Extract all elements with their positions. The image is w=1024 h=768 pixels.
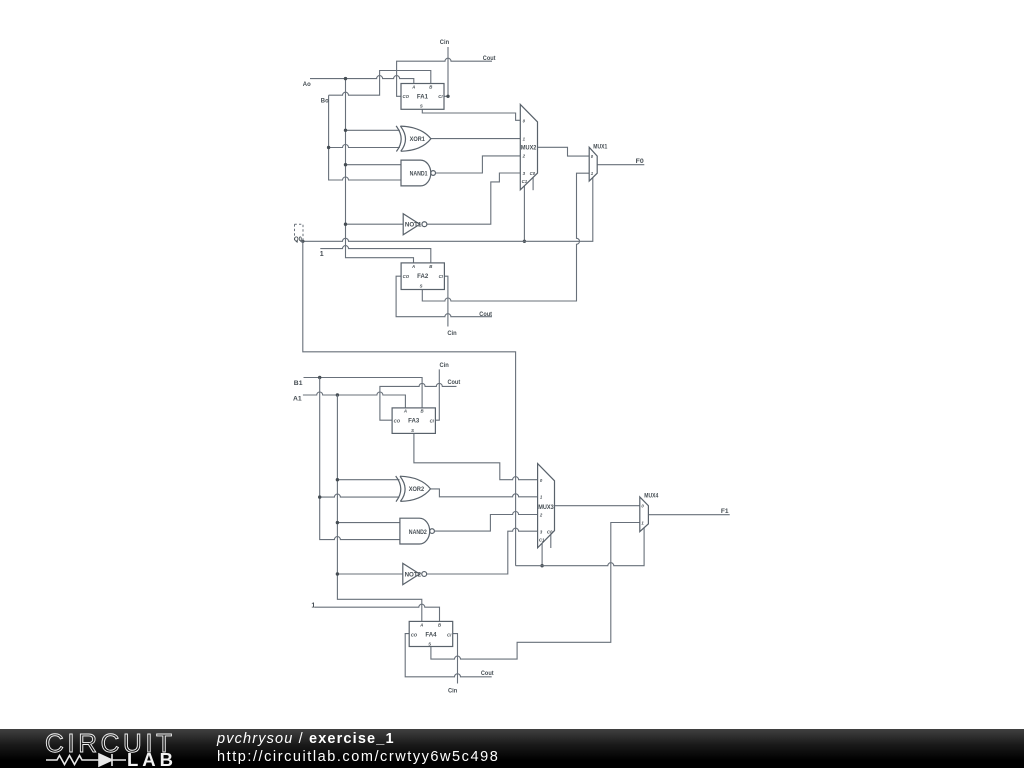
- svg-text:A: A: [403, 409, 407, 414]
- pin labels FA3: [394, 409, 435, 433]
- junction XOR1 upper input: [344, 129, 347, 132]
- wire A1 to FA3.A: [303, 392, 406, 408]
- junction Q0 flag: [301, 240, 304, 243]
- wire Cin to FA3.CI: [435, 369, 439, 420]
- svg-text:0: 0: [540, 478, 543, 483]
- wire XOR1 lower input: [329, 145, 400, 148]
- svg-text:2: 2: [539, 513, 543, 518]
- wire FA4.S to MUX4 pin 1: [431, 523, 640, 660]
- wire MUX3 output to MUX4 pin 0: [555, 505, 640, 507]
- wire FA3.S to MUX3 pin 0: [414, 433, 538, 479]
- junction MUX3.C1 on select wire: [540, 564, 543, 567]
- junction XOR1 lower input: [327, 146, 330, 149]
- svg-text:FA2: FA2: [417, 273, 429, 280]
- wire NOT1 output to MUX2 pin 3: [427, 173, 520, 224]
- svg-text:B: B: [421, 409, 424, 414]
- svg-text:NOT2: NOT2: [405, 571, 422, 578]
- svg-text:Cout: Cout: [481, 670, 494, 677]
- full adder FA4: [409, 621, 453, 646]
- svg-text:3: 3: [540, 529, 543, 534]
- junction FA1.CI: [446, 95, 449, 98]
- svg-text:B: B: [429, 264, 432, 269]
- svg-text:A1: A1: [293, 396, 302, 403]
- svg-text:F1: F1: [721, 508, 729, 515]
- svg-text:Cout: Cout: [448, 379, 461, 386]
- wire FA2.CO to Cout: [396, 276, 492, 317]
- wire MUX3 C0 stub: [550, 534, 552, 548]
- wire FA4.CO to Cout: [405, 634, 492, 677]
- mux MUX4: [640, 497, 649, 532]
- wire Q0 route down to lower section select: [303, 241, 516, 565]
- svg-text:2: 2: [522, 154, 526, 159]
- junction NOT1 input: [344, 223, 347, 226]
- svg-text:Cin: Cin: [447, 330, 456, 337]
- svg-text:0: 0: [641, 504, 644, 509]
- wire XOR1 output to MUX2 pin 1: [431, 138, 520, 140]
- svg-text:Cin: Cin: [448, 687, 457, 694]
- svg-text:MUX3: MUX3: [538, 504, 554, 511]
- wire XOR2 output to MUX3 pin 1: [431, 489, 538, 497]
- logo diode symbol: [96, 754, 126, 766]
- svg-text:Ao: Ao: [303, 81, 311, 88]
- svg-text:FA4: FA4: [425, 631, 437, 638]
- svg-text:S: S: [420, 284, 423, 289]
- pin labels FA2: [403, 264, 444, 289]
- mux MUX3: [538, 464, 555, 548]
- wire select net to MUX4 select: [516, 528, 645, 566]
- junction NAND2 upper input: [336, 521, 339, 524]
- svg-text:1: 1: [641, 521, 644, 526]
- wire FA4.CI to Cin: [453, 634, 458, 684]
- mux MUX2: [520, 104, 537, 189]
- svg-text:XOR2: XOR2: [409, 486, 425, 493]
- svg-text:Q0: Q0: [294, 236, 302, 243]
- svg-text:Cin: Cin: [440, 39, 449, 46]
- junction A1 bus: [336, 393, 339, 396]
- svg-text:S: S: [428, 642, 431, 647]
- pin labels MUX3: [539, 478, 553, 543]
- svg-text:MUX2: MUX2: [521, 145, 537, 152]
- svg-text:0: 0: [591, 154, 594, 159]
- svg-text:FA1: FA1: [417, 94, 429, 101]
- wire XOR2 lower input: [320, 494, 400, 497]
- junction MUX2.C1 on Q0 wire: [523, 240, 526, 243]
- svg-text:CI: CI: [430, 419, 435, 424]
- xor gate XOR1: [396, 126, 431, 152]
- svg-text:0: 0: [523, 118, 526, 123]
- svg-text:CI: CI: [439, 274, 444, 279]
- svg-text:CO: CO: [403, 274, 410, 279]
- svg-text:CO: CO: [394, 419, 401, 424]
- pin labels MUX2: [522, 118, 536, 184]
- svg-text:S: S: [411, 428, 414, 433]
- not gate NOT1: [403, 214, 427, 235]
- wire Bo vertical bus to NAND1 lower input: [329, 95, 402, 180]
- wire NOT2 output to MUX3 pin 3: [427, 528, 538, 574]
- wire B1 to FA3.B: [304, 378, 423, 408]
- footer text line 2: [217, 749, 499, 765]
- junction Ao at bus top: [344, 77, 347, 80]
- wire MUX2 output to MUX1 pin 0: [538, 147, 590, 156]
- svg-text:C0: C0: [530, 171, 536, 176]
- wire XOR2 upper input: [337, 479, 399, 481]
- svg-text:S: S: [420, 104, 423, 109]
- wire XOR1 upper input: [346, 129, 400, 131]
- wire Ao to FA1.A: [310, 76, 414, 84]
- logo resistor symbol: [46, 756, 96, 765]
- svg-text:C1: C1: [522, 179, 528, 184]
- svg-text:F0: F0: [636, 158, 644, 165]
- full adder FA2: [401, 263, 444, 290]
- full adder FA3: [392, 408, 435, 434]
- wire Bo to FA1.B: [329, 71, 431, 96]
- svg-text:CI: CI: [438, 94, 443, 99]
- svg-text:NAND1: NAND1: [410, 171, 428, 178]
- wire node Q0 horizontal to MUX1 select: [303, 178, 593, 242]
- junction NAND1 upper input: [344, 163, 347, 166]
- wire MUX2 C1 to node Q0: [523, 186, 525, 242]
- svg-text:B: B: [438, 622, 441, 627]
- svg-text:MUX4: MUX4: [644, 493, 658, 500]
- svg-text:FA3: FA3: [408, 418, 420, 425]
- wire NAND1 output to MUX2 pin 2: [436, 156, 521, 173]
- svg-text:XOR1: XOR1: [410, 136, 426, 143]
- svg-text:B: B: [429, 85, 432, 90]
- wire Cin to FA1.CI: [444, 47, 448, 96]
- svg-text:CI: CI: [447, 632, 452, 637]
- full adder FA1: [401, 84, 444, 110]
- pin labels MUX4: [641, 504, 644, 526]
- svg-text:1: 1: [311, 602, 315, 609]
- wire NOT2 input: [337, 573, 402, 575]
- wire FA1.CO to Cout: [397, 58, 492, 96]
- junction B1 bus: [318, 376, 321, 379]
- nand gate NAND1: [401, 160, 436, 186]
- wire NOT1 input: [346, 223, 404, 225]
- wire Ao vertical bus down to FA2.A: [346, 79, 414, 263]
- svg-text:CO: CO: [411, 632, 418, 637]
- svg-text:NOT1: NOT1: [405, 222, 422, 229]
- svg-text:LAB: LAB: [127, 749, 177, 768]
- wire FA2.CI to Cin: [444, 276, 448, 326]
- svg-text:Cout: Cout: [483, 55, 496, 62]
- junction NOT2 input: [336, 572, 339, 575]
- svg-text:B1: B1: [294, 380, 303, 387]
- wire NAND2 upper input: [337, 522, 400, 524]
- svg-text:Bo: Bo: [321, 97, 329, 104]
- wire net 1 to FA4.B: [315, 604, 440, 621]
- nand gate NAND2: [400, 518, 435, 544]
- footer text line 1: [217, 731, 395, 747]
- pin labels MUX1: [591, 154, 594, 176]
- svg-text:Cin: Cin: [440, 362, 449, 369]
- wire FA2.S to MUX1 pin 1: [422, 173, 589, 301]
- svg-text:A: A: [419, 622, 423, 627]
- svg-text:1: 1: [540, 495, 543, 500]
- wire net 1 to FA2.B: [320, 246, 431, 263]
- wire MUX2 C0 stub: [532, 177, 534, 190]
- svg-text:A: A: [411, 85, 415, 90]
- svg-text:C1: C1: [539, 538, 545, 543]
- wire B1 vertical bus to NAND2 lower input: [320, 378, 400, 540]
- wire A1 vertical bus to FA4.A: [337, 395, 421, 621]
- svg-text:1: 1: [523, 136, 526, 141]
- svg-text:C0: C0: [547, 529, 553, 534]
- pin labels FA4: [411, 622, 452, 646]
- footer bar: [0, 729, 1024, 768]
- wire NAND2 output to MUX3 pin 2: [434, 512, 537, 532]
- mux MUX1: [589, 147, 597, 181]
- svg-text:1: 1: [591, 171, 594, 176]
- wire FA1.S to MUX2 pin 0: [422, 109, 520, 120]
- svg-text:MUX1: MUX1: [593, 144, 607, 151]
- wire MUX3 C1 to select net: [541, 543, 543, 566]
- node Q0 dashed flag box: [295, 224, 304, 241]
- not gate NOT2: [403, 563, 427, 584]
- svg-text:A: A: [411, 264, 415, 269]
- xor gate XOR2: [396, 476, 431, 502]
- junction XOR2 lower input: [318, 495, 321, 498]
- pin labels FA1: [403, 85, 444, 109]
- wire MUX1 output to F0: [597, 164, 644, 166]
- wire NAND1 upper input: [346, 164, 402, 166]
- svg-text:NAND2: NAND2: [409, 529, 427, 536]
- svg-text:1: 1: [320, 251, 324, 258]
- wire MUX4 output to F1: [648, 514, 729, 516]
- wire FA3.CO to Cout: [380, 383, 457, 420]
- circuitlab logo: [0, 729, 200, 768]
- svg-text:CO: CO: [403, 94, 410, 99]
- svg-text:Cout: Cout: [479, 311, 492, 318]
- svg-text:3: 3: [523, 171, 526, 176]
- junction XOR2 upper input: [336, 478, 339, 481]
